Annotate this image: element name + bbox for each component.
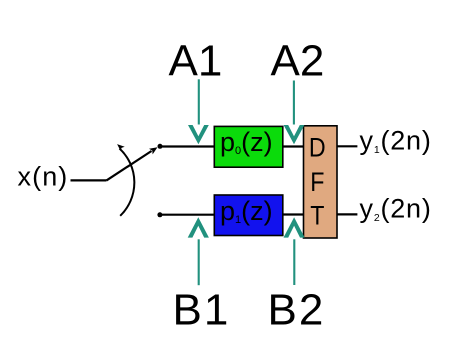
arrow B1 head (188, 217, 209, 237)
svg-text:p1(z): p1(z) (220, 196, 273, 226)
filter block p1(z) (214, 195, 282, 236)
arc arrowhead (117, 144, 125, 151)
arrow B2 shaft (293, 239, 295, 285)
wire upper dot to p0 box (160, 145, 214, 147)
filter block p0(z) (214, 126, 282, 167)
wire from x(n) (71, 179, 107, 181)
switch arm arrowhead (149, 147, 158, 154)
svg-text:A1: A1 (169, 37, 223, 86)
svg-text:y2(2n): y2(2n) (360, 193, 432, 224)
svg-text:x(n): x(n) (18, 162, 69, 192)
wire lower dot to p1 box (160, 214, 214, 216)
wire p0 box to DFT (283, 145, 303, 147)
arrow A1 shaft (198, 79, 200, 124)
wire DFT to y1 output (337, 145, 357, 147)
svg-text:T: T (310, 201, 324, 231)
node: lower contact junction dot (157, 212, 162, 217)
svg-text:D: D (309, 133, 326, 163)
arrow A2 shaft (293, 81, 295, 125)
arrow B1 shaft (198, 239, 200, 285)
wire p1 box to DFT (283, 213, 303, 215)
svg-text:A2: A2 (271, 37, 325, 86)
svg-text:F: F (310, 167, 324, 197)
switch rotation arc (120, 149, 135, 216)
arrow A2 head (284, 125, 305, 144)
switch arm wire (107, 151, 152, 180)
DFT block (304, 126, 338, 238)
arrow B2 head (284, 217, 305, 237)
node: upper contact junction dot (158, 144, 163, 149)
svg-text:B2: B2 (268, 286, 326, 335)
svg-text:B1: B1 (173, 286, 231, 335)
svg-text:y1(2n): y1(2n) (360, 125, 432, 156)
wire DFT to y2 output (337, 213, 357, 215)
svg-text:p0(z): p0(z) (220, 127, 273, 157)
arrow A1 head (188, 125, 209, 144)
